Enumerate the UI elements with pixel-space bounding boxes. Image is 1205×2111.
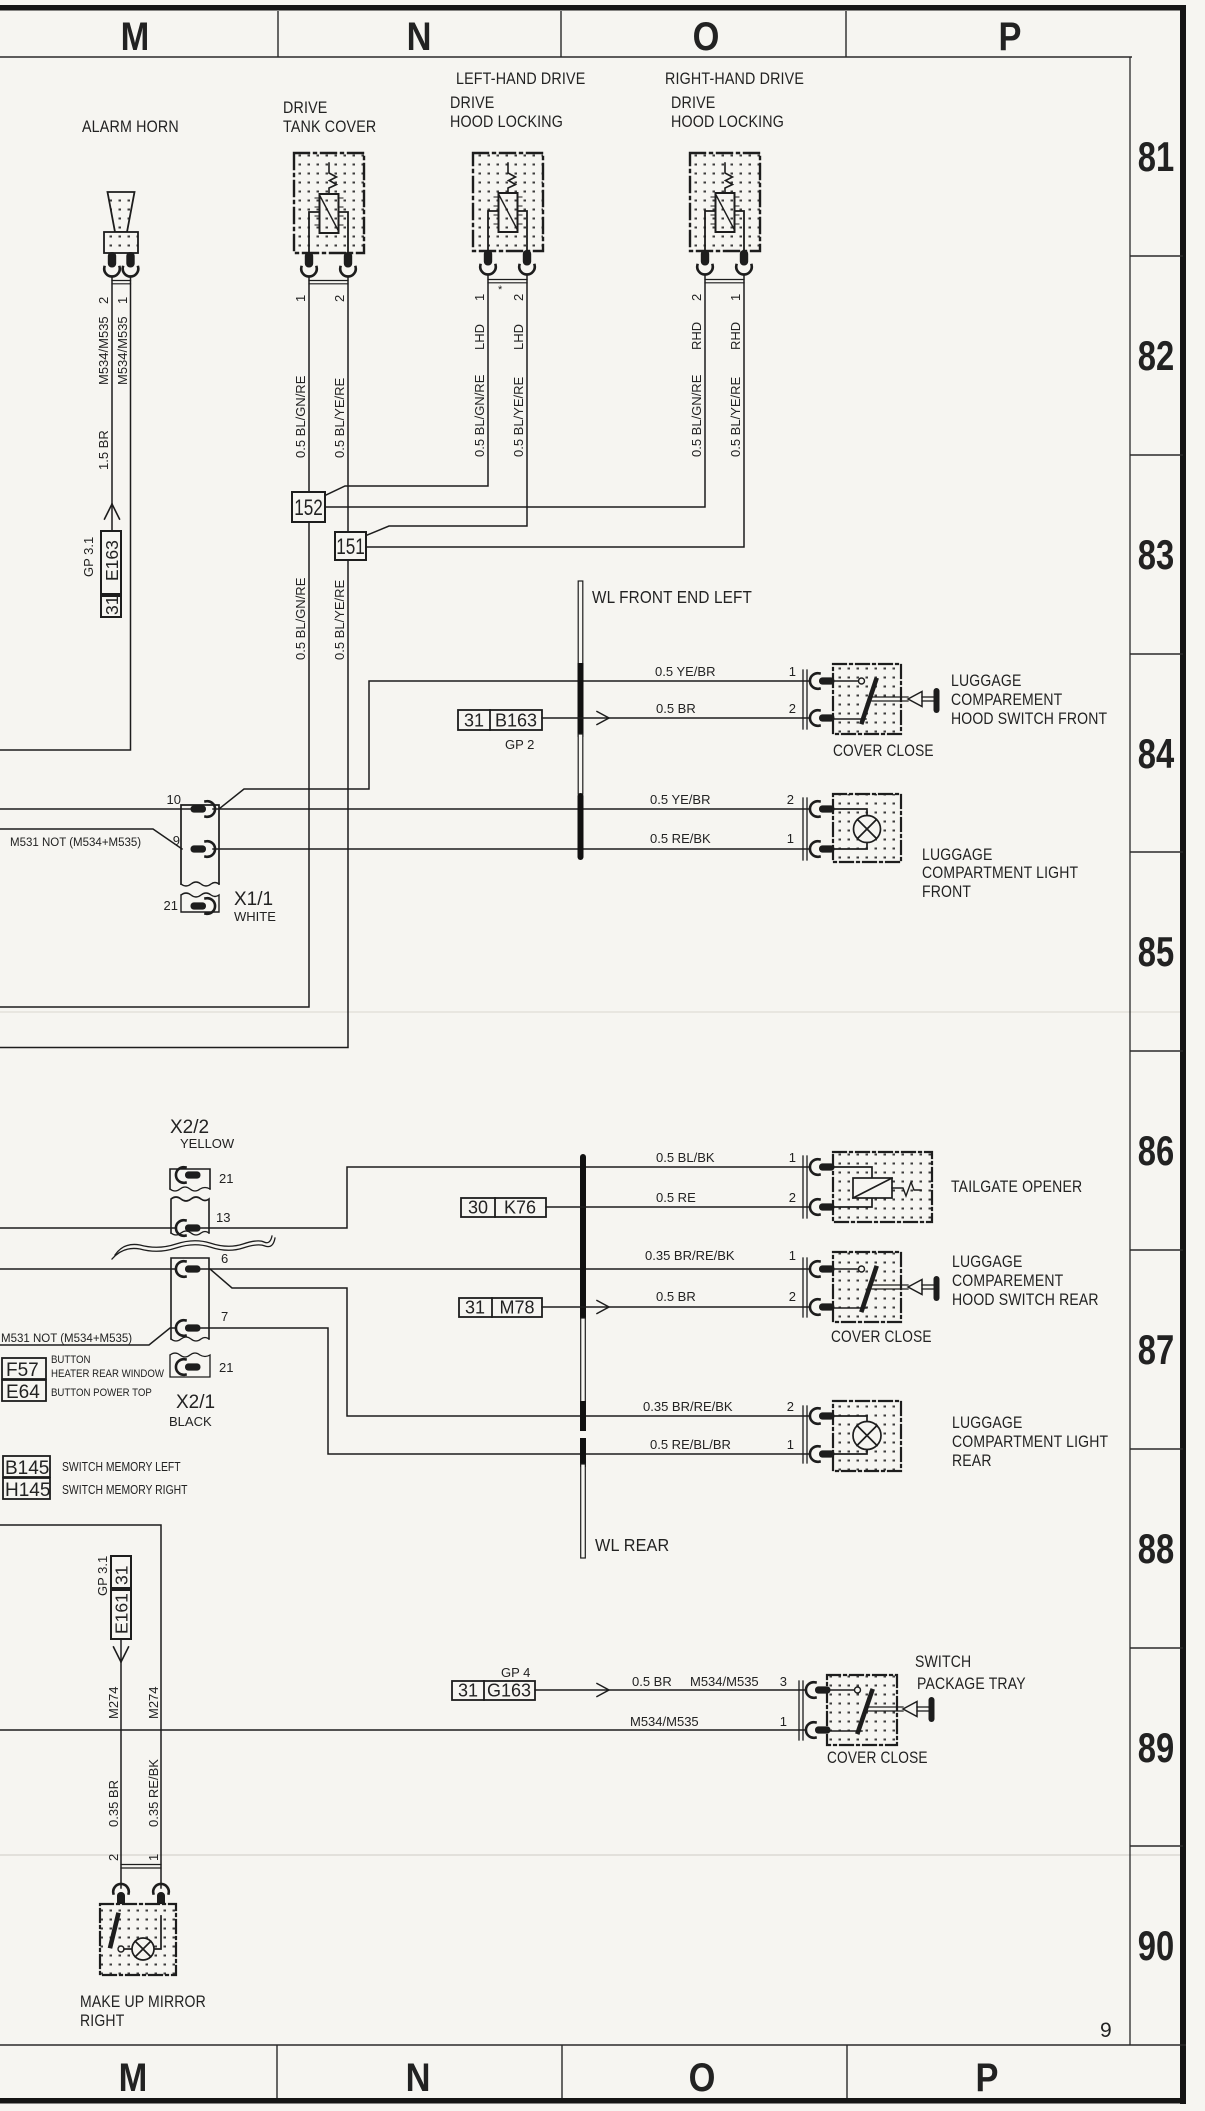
connector face front light	[803, 798, 807, 860]
luggage light front box	[833, 794, 901, 862]
wire X1/1 pin10 to front area: straight to lamp and branch up to switch	[213, 808, 810, 810]
svg-text:M534/M535: M534/M535	[630, 1714, 699, 1729]
svg-text:H145: H145	[5, 1480, 50, 1501]
svg-text:1: 1	[115, 297, 130, 304]
svg-text:LUGGAGE: LUGGAGE	[922, 846, 992, 864]
X2/1 pin 7	[176, 1320, 201, 1336]
wire tray switch pin1 from left edge	[0, 1729, 806, 1731]
svg-text:0.5 RE: 0.5 RE	[656, 1190, 696, 1205]
X2/1 pin 21 (bottom)	[176, 1359, 201, 1375]
svg-text:0.35 BR/RE/BK: 0.35 BR/RE/BK	[643, 1399, 733, 1414]
svg-text:BUTTON: BUTTON	[51, 1353, 90, 1366]
connector X2/1 body	[171, 1258, 209, 1341]
svg-text:0.5 BL/YE/RE: 0.5 BL/YE/RE	[332, 377, 347, 458]
svg-text:M531 NOT (M534+M535): M531 NOT (M534+M535)	[1, 1333, 132, 1345]
svg-text:P: P	[999, 14, 1022, 59]
svg-text:DRIVE: DRIVE	[450, 94, 494, 112]
svg-text:REAR: REAR	[952, 1452, 992, 1470]
svg-text:0.5 BL/GN/RE: 0.5 BL/GN/RE	[293, 577, 308, 660]
svg-text:0.5 BL/YE/RE: 0.5 BL/YE/RE	[332, 579, 347, 660]
svg-text:COMPARTMENT LIGHT: COMPARTMENT LIGHT	[952, 1433, 1108, 1451]
wire to X1/1 pin 9 from left with jog	[0, 829, 182, 849]
svg-text:2: 2	[689, 294, 704, 301]
top border	[0, 5, 1186, 11]
luggage light rear box	[833, 1401, 901, 1471]
header band bottom line	[0, 56, 1132, 58]
svg-text:M274: M274	[146, 1686, 161, 1719]
lamp front symbol	[832, 809, 881, 849]
svg-text:0.5 RE/BL/BR: 0.5 RE/BL/BR	[650, 1437, 731, 1452]
svg-text:RIGHT: RIGHT	[80, 2012, 124, 2030]
svg-text:82: 82	[1138, 332, 1174, 379]
svg-text:COMPAREMENT: COMPAREMENT	[951, 691, 1062, 709]
svg-text:PACKAGE TRAY: PACKAGE TRAY	[917, 1675, 1026, 1693]
svg-text:RHD: RHD	[728, 322, 743, 350]
connector face rear switch	[803, 1258, 807, 1317]
svg-text:2: 2	[332, 295, 347, 302]
footer band top line	[0, 2044, 1186, 2046]
svg-text:10: 10	[167, 792, 181, 807]
actuator drive hood locking LHD	[473, 153, 543, 251]
switch front pin 1	[810, 673, 835, 689]
wire LHD pin1 down, left to node 152	[325, 274, 488, 496]
svg-text:0.5 YE/BR: 0.5 YE/BR	[650, 792, 710, 807]
svg-text:DRIVE: DRIVE	[283, 99, 327, 117]
mirror switch lever	[111, 1915, 119, 1946]
svg-text:BUTTON POWER TOP: BUTTON POWER TOP	[51, 1386, 152, 1399]
mirror contact circle	[118, 1946, 124, 1952]
svg-text:M534/M535: M534/M535	[115, 316, 130, 385]
svg-text:0.35 BR: 0.35 BR	[106, 1780, 121, 1827]
svg-text:LUGGAGE: LUGGAGE	[952, 1414, 1022, 1432]
svg-text:1: 1	[728, 294, 743, 301]
row dividers	[1130, 256, 1183, 1846]
svg-text:B145: B145	[5, 1458, 49, 1479]
mirror pin 2 (arc up bar down)	[113, 1884, 129, 1918]
svg-text:WHITE: WHITE	[234, 909, 276, 924]
svg-text:0.5 BL/GN/RE: 0.5 BL/GN/RE	[293, 375, 308, 458]
wire pin6 left	[0, 1268, 176, 1270]
switch front pin2 inner wire	[832, 718, 866, 720]
X2/1 pin 6	[176, 1261, 201, 1277]
mirror pin 1	[153, 1884, 169, 1918]
svg-text:B163: B163	[495, 711, 537, 731]
bus WL REAR	[581, 1157, 586, 1558]
svg-text:LEFT-HAND DRIVE: LEFT-HAND DRIVE	[456, 70, 585, 88]
wire pin13 right up to tailgate pin1	[201, 1167, 810, 1228]
tank cover pin 1	[301, 252, 317, 277]
svg-text:LUGGAGE: LUGGAGE	[952, 1253, 1022, 1271]
luggage hood switch front box	[833, 664, 901, 734]
svg-text:COMPAREMENT: COMPAREMENT	[952, 1272, 1063, 1290]
svg-text:3: 3	[780, 1674, 787, 1689]
svg-text:HOOD LOCKING: HOOD LOCKING	[450, 113, 563, 131]
connector X2/2 pin 21 box	[170, 1169, 210, 1191]
RHD pin 2 (left)	[697, 250, 713, 275]
switch front contact circle	[832, 678, 865, 684]
svg-text:WL FRONT END LEFT: WL FRONT END LEFT	[592, 587, 752, 607]
wire pin6 right to rear switch pin1	[201, 1268, 810, 1270]
svg-text:0.5 RE/BK: 0.5 RE/BK	[650, 831, 711, 846]
rear switch pin 2	[810, 1299, 835, 1315]
svg-text:152: 152	[294, 496, 323, 521]
wire X1/1 pin9 to light front pin1	[213, 848, 810, 850]
wire mirror pin1 feed: top edge and vertical	[0, 1525, 161, 1888]
alarm horn symbol	[104, 192, 138, 253]
svg-text:0.5 BR: 0.5 BR	[632, 1674, 672, 1689]
box F57	[2, 1358, 46, 1381]
svg-text:86: 86	[1138, 1127, 1174, 1174]
alarm horn pin 1 (right terminal)	[123, 252, 139, 277]
svg-text:89: 89	[1138, 1724, 1174, 1771]
wire branch pin6 down to rear light pin2	[210, 1269, 810, 1416]
svg-text:1: 1	[789, 1248, 796, 1263]
X1/1 pin 21	[191, 898, 216, 914]
svg-text:2: 2	[789, 1190, 796, 1205]
wire M78 to rear switch pin2 with arrow	[542, 1306, 810, 1308]
svg-text:X2/2: X2/2	[170, 1117, 209, 1138]
wire K76 to tailgate pin2	[546, 1206, 810, 1208]
svg-text:88: 88	[1138, 1525, 1174, 1572]
svg-text:ALARM HORN: ALARM HORN	[82, 118, 179, 136]
svg-text:85: 85	[1138, 928, 1174, 975]
switch front pin 2	[810, 710, 835, 726]
ground box 31|M78	[459, 1298, 542, 1318]
wire horn pin2 down to E163	[111, 276, 113, 531]
svg-text:LHD: LHD	[472, 324, 487, 350]
X1/1 pin 10	[191, 801, 216, 817]
faint scan streak	[0, 1011, 1183, 1013]
box E64	[2, 1380, 46, 1403]
fuse box 30|K76	[461, 1198, 546, 1218]
svg-text:F57: F57	[6, 1360, 39, 1381]
svg-text:1: 1	[789, 664, 796, 679]
svg-text:83: 83	[1138, 531, 1174, 578]
connector face rear light	[803, 1406, 807, 1463]
ground box E163 / 31	[101, 531, 122, 617]
svg-text:81: 81	[1138, 133, 1174, 180]
light front pin 2	[810, 801, 835, 817]
svg-text:1: 1	[789, 1150, 796, 1165]
wire to X1/1 pin 10 from left	[0, 808, 190, 810]
svg-text:MAKE UP MIRROR: MAKE UP MIRROR	[80, 1993, 206, 2011]
svg-text:O: O	[693, 14, 720, 59]
svg-text:0.5 BR: 0.5 BR	[656, 701, 696, 716]
svg-text:0.5 BL/YE/RE: 0.5 BL/YE/RE	[511, 376, 526, 457]
row number column line	[1129, 57, 1131, 2045]
rear switch pin 1	[810, 1261, 835, 1277]
svg-text:O: O	[689, 2055, 716, 2100]
connector X2/2 body	[171, 1197, 209, 1235]
svg-text:G163: G163	[487, 1681, 531, 1701]
ground box 31|E161	[111, 1556, 132, 1639]
svg-text:M534/M535: M534/M535	[690, 1674, 759, 1689]
X2/2 pin 13	[176, 1220, 201, 1236]
tailgate opener box	[833, 1152, 932, 1222]
wire B163 to switch front pin2 with arrow	[542, 717, 810, 719]
svg-text:31: 31	[458, 1681, 478, 1701]
svg-text:0.5 BL/YE/RE: 0.5 BL/YE/RE	[728, 376, 743, 457]
svg-text:*: *	[498, 284, 503, 296]
svg-text:COMPARTMENT LIGHT: COMPARTMENT LIGHT	[922, 864, 1078, 882]
svg-text:90: 90	[1138, 1922, 1174, 1969]
tray switch pin 1	[806, 1722, 831, 1738]
svg-text:LHD: LHD	[511, 324, 526, 350]
ground box 31|G163	[452, 1681, 535, 1701]
svg-text:WL REAR: WL REAR	[595, 1535, 669, 1555]
svg-text:84: 84	[1138, 730, 1174, 777]
svg-text:21: 21	[164, 898, 178, 913]
connector face tailgate	[803, 1156, 807, 1218]
rear switch lever	[862, 1268, 876, 1310]
svg-text:31: 31	[102, 596, 122, 615]
box H145	[3, 1478, 50, 1501]
header divider N/O	[560, 11, 562, 57]
footer divider M/N	[276, 2045, 278, 2098]
wire tank pin1 below 152 down to left exit	[0, 522, 309, 1007]
twisted pair mark RHD	[705, 280, 744, 283]
svg-text:30: 30	[468, 1198, 488, 1218]
svg-text:2: 2	[789, 701, 796, 716]
svg-text:M531 NOT (M534+M535): M531 NOT (M534+M535)	[10, 837, 141, 849]
arrow down on E161 wire	[114, 1647, 129, 1662]
svg-text:M274: M274	[106, 1686, 121, 1719]
svg-text:M78: M78	[499, 1298, 534, 1318]
bus WL FRONT END LEFT	[578, 581, 583, 857]
wire tank pin1 to node 152	[308, 276, 310, 492]
svg-text:87: 87	[1138, 1326, 1174, 1373]
svg-text:1: 1	[787, 831, 794, 846]
svg-text:RIGHT-HAND DRIVE: RIGHT-HAND DRIVE	[665, 70, 804, 88]
node box 152	[292, 492, 325, 522]
svg-text:BLACK: BLACK	[169, 1414, 212, 1429]
svg-text:COVER CLOSE: COVER CLOSE	[827, 1749, 928, 1767]
svg-text:X2/1: X2/1	[176, 1392, 215, 1413]
wire tank pin2 below 151 down to left exit	[0, 560, 348, 1048]
twisted pair mark tank cover	[309, 281, 348, 284]
X2/2 pin 21	[176, 1167, 201, 1183]
tray switch lever	[858, 1691, 872, 1732]
svg-text:HOOD SWITCH FRONT: HOOD SWITCH FRONT	[951, 710, 1107, 728]
svg-text:2: 2	[787, 792, 794, 807]
wire LHD pin2 down, left to node 151	[366, 274, 527, 536]
svg-text:N: N	[406, 2055, 431, 2100]
svg-text:YELLOW: YELLOW	[180, 1136, 235, 1151]
light front pin 1	[810, 841, 835, 857]
footer divider O/P	[846, 2045, 848, 2098]
svg-text:2: 2	[789, 1289, 796, 1304]
svg-text:31: 31	[112, 1566, 132, 1585]
svg-text:1: 1	[472, 294, 487, 301]
svg-text:GP 3.1: GP 3.1	[95, 1556, 110, 1596]
arrowhead on M78 wire	[597, 1301, 609, 1314]
svg-text:TAILGATE OPENER: TAILGATE OPENER	[951, 1178, 1082, 1196]
svg-text:P: P	[976, 2055, 999, 2100]
wire RHD pin1 down then left to node 151	[366, 274, 744, 547]
svg-text:31: 31	[464, 711, 484, 731]
svg-text:21: 21	[219, 1360, 233, 1375]
make up mirror box	[100, 1904, 176, 1975]
svg-text:N: N	[407, 14, 432, 59]
plunger rear switch	[872, 1276, 940, 1301]
X1/1 pin 9	[191, 841, 216, 857]
svg-text:X1/1: X1/1	[234, 889, 273, 910]
light rear pin 2	[810, 1408, 835, 1424]
svg-text:SWITCH: SWITCH	[915, 1653, 971, 1671]
svg-text:GP 2: GP 2	[505, 737, 534, 752]
switch front lever	[862, 680, 876, 722]
svg-text:GP 4: GP 4	[501, 1665, 530, 1680]
svg-text:0.35 RE/BK: 0.35 RE/BK	[146, 1759, 161, 1827]
actuator drive hood locking RHD	[690, 153, 760, 251]
svg-text:RHD: RHD	[689, 322, 704, 350]
wire RHD pin2 down then left to node 152	[325, 274, 705, 507]
wire E161 down to mirror pin2	[120, 1639, 122, 1888]
tray switch pin 3	[806, 1682, 831, 1698]
ground box 31|B163	[458, 710, 542, 731]
faint scan streak	[0, 1854, 1183, 1856]
light rear pin 1	[810, 1446, 835, 1462]
svg-text:31: 31	[465, 1298, 485, 1318]
svg-text:7: 7	[221, 1309, 228, 1324]
svg-text:TANK COVER: TANK COVER	[283, 118, 376, 136]
wire horn pin1 down and left	[0, 276, 131, 750]
svg-text:151: 151	[336, 535, 365, 560]
svg-text:LUGGAGE: LUGGAGE	[951, 672, 1021, 690]
svg-text:HOOD SWITCH REAR: HOOD SWITCH REAR	[952, 1291, 1099, 1309]
svg-text:0.5 BL/GN/RE: 0.5 BL/GN/RE	[472, 374, 487, 457]
svg-text:1.5 BR: 1.5 BR	[96, 430, 111, 470]
svg-text:9: 9	[1100, 2019, 1112, 2042]
svg-text:E64: E64	[6, 1382, 40, 1403]
svg-text:2: 2	[96, 297, 111, 304]
svg-text:9: 9	[173, 833, 180, 848]
relay coil tailgate	[832, 1167, 921, 1207]
rear switch pin2 inner wire	[832, 1307, 866, 1309]
svg-text:FRONT: FRONT	[922, 883, 971, 901]
row numbers 81-90	[1138, 133, 1174, 1969]
svg-text:2: 2	[787, 1399, 794, 1414]
bottom border thick	[0, 2098, 1186, 2104]
svg-text:DRIVE: DRIVE	[671, 94, 715, 112]
plunger tray switch	[868, 1697, 935, 1722]
svg-text:21: 21	[219, 1171, 233, 1186]
svg-text:2: 2	[106, 1854, 121, 1861]
svg-text:GP 3.1: GP 3.1	[81, 537, 96, 577]
wire pin13 left	[0, 1227, 176, 1229]
header divider M/N	[277, 11, 279, 57]
tray switch contact circle	[828, 1687, 861, 1693]
switch package tray box	[827, 1675, 897, 1745]
arrowhead on B163 wire	[597, 712, 609, 725]
svg-text:SWITCH MEMORY RIGHT: SWITCH MEMORY RIGHT	[62, 1483, 188, 1497]
RHD pin 1 (right)	[736, 250, 752, 275]
arrowhead on G163 wire	[597, 1684, 609, 1697]
twisted pair mark horn	[112, 281, 131, 284]
svg-text:13: 13	[216, 1210, 230, 1225]
svg-text:1: 1	[780, 1714, 787, 1729]
connector face tray switch	[799, 1681, 803, 1740]
LHD pin 1	[480, 250, 496, 275]
svg-text:HOOD LOCKING: HOOD LOCKING	[671, 113, 784, 131]
svg-text:M: M	[121, 14, 150, 59]
footer divider N/O	[561, 2045, 563, 2098]
cable cut squiggle	[112, 1236, 275, 1259]
actuator drive tank cover	[294, 153, 364, 253]
svg-text:0.5 YE/BR: 0.5 YE/BR	[655, 664, 715, 679]
svg-text:6: 6	[221, 1251, 228, 1266]
svg-text:HEATER REAR WINDOW: HEATER REAR WINDOW	[51, 1367, 164, 1380]
wire G163 to tray switch pin3 with arrow	[535, 1689, 806, 1691]
tailgate pin 1	[810, 1159, 835, 1175]
svg-text:0.5 BR: 0.5 BR	[656, 1289, 696, 1304]
connector X2/1 pin 21 box	[170, 1353, 210, 1377]
wire tank pin2 to node 151	[347, 276, 349, 532]
tailgate pin 2	[810, 1199, 835, 1215]
connector face front switch	[803, 670, 807, 729]
node box 151	[335, 532, 366, 560]
svg-text:1: 1	[146, 1854, 161, 1861]
svg-text:2: 2	[511, 294, 526, 301]
LHD pin 2	[519, 250, 535, 275]
plunger front (cover close actuator)	[872, 688, 940, 713]
arrow up on horn ground wire	[105, 504, 120, 519]
tank cover pin 2	[340, 252, 356, 277]
svg-text:SWITCH MEMORY LEFT: SWITCH MEMORY LEFT	[62, 1460, 181, 1474]
svg-text:0.5 BL/BK: 0.5 BL/BK	[656, 1150, 715, 1165]
svg-text:0.5 BL/GN/RE: 0.5 BL/GN/RE	[689, 374, 704, 457]
wire pin7 left with jog	[0, 1328, 176, 1345]
tray switch pin1 inner wire	[828, 1730, 862, 1732]
svg-text:M: M	[119, 2055, 148, 2100]
wire pin7 right down to rear light pin1	[201, 1328, 810, 1454]
box B145	[3, 1456, 50, 1479]
svg-text:E161: E161	[112, 1593, 132, 1634]
rear switch contact circle	[832, 1266, 865, 1272]
svg-text:COVER CLOSE: COVER CLOSE	[831, 1328, 932, 1346]
connector X1/1 body	[181, 805, 219, 912]
alarm horn pin 2 (left terminal)	[104, 252, 120, 277]
twisted pair mark LHD	[488, 280, 527, 283]
svg-text:M534/M535: M534/M535	[96, 316, 111, 385]
lamp rear symbol	[832, 1416, 881, 1454]
right border thick	[1180, 5, 1186, 2104]
svg-text:0.35 BR/RE/BK: 0.35 BR/RE/BK	[645, 1248, 735, 1263]
svg-text:COVER CLOSE: COVER CLOSE	[833, 742, 934, 760]
svg-text:1: 1	[293, 295, 308, 302]
svg-text:1: 1	[787, 1437, 794, 1452]
wire branch pin10 up to switch front pin1	[219, 681, 810, 809]
header divider O/P	[845, 11, 847, 57]
luggage hood switch rear box	[833, 1252, 901, 1322]
svg-text:E163: E163	[102, 540, 122, 581]
twisted pair mark mirror	[121, 1865, 161, 1869]
mirror lamp	[124, 1916, 161, 1960]
svg-text:K76: K76	[504, 1198, 536, 1218]
